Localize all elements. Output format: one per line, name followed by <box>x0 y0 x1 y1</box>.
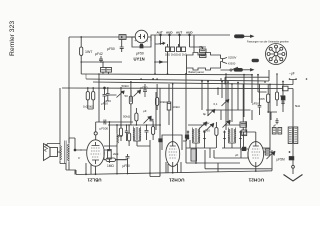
svg-text:~μF: ~μF <box>289 72 295 76</box>
osc pad C9 <box>145 128 149 135</box>
resistor R29 capsule <box>252 59 259 62</box>
socket diagram circle <box>266 44 287 65</box>
svg-text:μF42: μF42 <box>95 52 103 56</box>
svg-text:1kΩ 5kΩ: 1kΩ 5kΩ <box>83 105 93 109</box>
wire centre verticals <box>131 84 160 176</box>
wire heater bus <box>81 61 122 63</box>
trimmer CT1 <box>144 116 152 124</box>
resistor R5 <box>182 47 186 52</box>
wire below cap <box>292 160 294 165</box>
IF1 core <box>136 127 138 140</box>
tube UCH21 envelope <box>166 142 180 167</box>
svg-text:AUT: AUT <box>157 31 163 35</box>
svg-text:μF500: μF500 <box>100 127 109 131</box>
bus box segment <box>225 77 269 84</box>
svg-text:1W7: 1W7 <box>85 50 92 54</box>
divider R9 box <box>106 68 112 73</box>
capacitor C22 blob <box>289 157 294 160</box>
node taps <box>160 34 191 36</box>
plug arrow top <box>250 35 253 37</box>
wire osc row <box>108 125 160 146</box>
resistor R24 <box>119 125 122 141</box>
transformer T1 secondary <box>67 143 69 162</box>
resistor R3 <box>171 47 175 52</box>
svg-text:5kΩ: 5kΩ <box>295 104 300 108</box>
tube UCH21 second anode <box>253 142 259 166</box>
IF2 cap right <box>203 131 205 141</box>
capacitor C23 <box>281 96 285 100</box>
model name text <box>9 21 16 56</box>
svg-text:2: 2 <box>147 39 149 43</box>
wire UCH21 second pins <box>240 121 270 171</box>
trimmer CT3 <box>206 123 214 131</box>
resistor R7 capsule <box>234 68 250 71</box>
svg-text:μF: μF <box>143 109 147 113</box>
svg-text:Batterij aansl.: Batterij aansl. <box>189 70 205 74</box>
svg-text:μF50: μF50 <box>136 52 144 56</box>
capacitor C10 <box>150 117 154 121</box>
resistor R6 capsule mains <box>235 35 251 38</box>
socket spokes <box>270 48 282 60</box>
tube UCH21 second grids <box>252 149 261 158</box>
bus agc y82-84 <box>93 80 297 85</box>
capacitor C20 <box>159 139 162 142</box>
transformer T1 core <box>65 141 67 164</box>
svg-text:UBL21: UBL21 <box>87 178 101 183</box>
wire AF coupling <box>104 150 128 174</box>
IF2 coil a <box>193 128 195 144</box>
svg-text:10kΩ: 10kΩ <box>173 105 181 109</box>
speaker LS body <box>50 148 58 157</box>
resistor R15 <box>135 108 138 125</box>
resistor R16 <box>129 82 132 110</box>
resistor R18 <box>167 84 171 125</box>
capacitor C4 box <box>200 49 207 52</box>
svg-text:6μ: 6μ <box>203 112 207 116</box>
wire antenna column <box>262 85 293 157</box>
svg-text:Remler 323: Remler 323 <box>9 21 16 56</box>
resistor R4 <box>177 44 181 52</box>
resistor R23 <box>108 122 112 163</box>
antenna coil L1a <box>288 127 292 144</box>
svg-text:UCH21: UCH21 <box>169 178 185 183</box>
wire shield links <box>183 138 187 141</box>
svg-text:μF50: μF50 <box>203 129 210 133</box>
tube UY1N envelope <box>135 30 148 43</box>
resistor R19 <box>156 92 159 110</box>
capacitor C16 <box>106 91 110 98</box>
capacitor C7 <box>104 120 106 125</box>
svg-text:Fassungen von der Unterseite g: Fassungen von der Unterseite gesehen <box>247 41 290 44</box>
capacitor C21 <box>185 135 188 138</box>
wire top supply <box>69 36 135 38</box>
osc resistor R14 <box>152 121 155 140</box>
wire choke <box>116 125 118 174</box>
tube UBL21 envelope <box>87 140 105 166</box>
antenna coil L1b <box>294 127 298 144</box>
svg-text:UCH21: UCH21 <box>248 178 264 183</box>
capacitor C2 <box>120 37 124 52</box>
plug arrow bottom <box>250 69 253 71</box>
svg-text:μF5M: μF5M <box>277 158 286 162</box>
tube UCH21 anode <box>170 142 176 166</box>
wire to earth <box>292 168 294 174</box>
divider R8 box <box>101 68 107 73</box>
capacitor C5 box <box>200 54 207 57</box>
switch wiper S1b <box>155 61 168 63</box>
switch S3 mains <box>221 67 241 71</box>
wire mid-left links <box>99 74 133 122</box>
svg-text:1kΩ 1kΩ: 1kΩ 1kΩ <box>165 53 176 57</box>
resistor R10 <box>86 88 89 109</box>
capacitor C6 <box>103 88 107 101</box>
svg-text:50kΩ: 50kΩ <box>122 84 130 88</box>
tube UBL21 anode <box>92 142 100 164</box>
resistor R1 1W7 <box>80 37 83 62</box>
capacitor C8 <box>126 154 130 161</box>
wire IF3 links <box>222 74 243 148</box>
svg-text:UY1N: UY1N <box>134 57 145 62</box>
svg-text:50kΩ: 50kΩ <box>123 115 131 119</box>
svg-text:μF: μF <box>273 124 276 128</box>
resistor R2 <box>166 44 170 52</box>
wire bottom right links <box>206 75 277 120</box>
wire speaker links <box>60 138 82 175</box>
trimmer CT4 <box>223 120 231 128</box>
node transformer tap <box>74 149 76 151</box>
wire v86 <box>85 74 87 79</box>
fuse box F1 <box>119 35 126 40</box>
capacitor C3 electrolytic <box>140 45 143 48</box>
IF1 coil b <box>139 127 141 142</box>
resistor R20 <box>215 122 218 140</box>
tube UBL21 grid lines <box>91 148 101 157</box>
capacitor C24 <box>276 118 279 124</box>
switch wiper S1 <box>155 42 165 44</box>
box on avc bus <box>283 86 289 91</box>
wire extra drops <box>202 75 267 122</box>
IF2 core <box>195 128 197 142</box>
svg-text:1kΩ 1kΩ: 1kΩ 1kΩ <box>176 53 187 57</box>
IF3 coil a <box>229 128 231 144</box>
node antenna circle <box>292 165 295 168</box>
svg-text:50kΩ: 50kΩ <box>160 100 168 104</box>
resistor R13 capsule horizontal <box>104 158 126 161</box>
resistor R26 capsule <box>267 84 270 112</box>
resistor R17 capsule <box>143 84 147 97</box>
trimmer CT5 <box>267 151 275 159</box>
wire left rail <box>68 37 70 143</box>
svg-text:C: C <box>78 156 81 160</box>
IF2 coil b <box>198 128 200 144</box>
trimmer CT6 <box>199 122 207 130</box>
tube UCH21 second envelope <box>248 142 264 167</box>
IF1 coil a <box>134 127 136 142</box>
bus B+ y74 <box>81 73 252 76</box>
switch S2 contacts <box>187 47 228 74</box>
wire UCH21 pins <box>150 84 181 177</box>
socket pins <box>267 45 285 63</box>
bus screen y79 <box>86 70 269 81</box>
wire if links low <box>186 140 241 172</box>
wire UBL21 top pin <box>96 122 99 140</box>
transformer T1 primary <box>60 145 62 162</box>
frame lines IF return <box>205 150 272 169</box>
svg-text:2kΩ: 2kΩ <box>113 152 119 156</box>
svg-text:K/500: K/500 <box>228 62 236 66</box>
trimmer CT7 <box>222 99 229 106</box>
resistor R27 <box>275 74 278 106</box>
resistor R11 <box>88 88 95 109</box>
resistor R12 <box>128 125 131 146</box>
volume pot P1 <box>117 88 125 125</box>
wire rectifier loop <box>132 37 151 47</box>
bottom bus <box>66 150 272 175</box>
tube UY1N electrodes <box>139 34 145 39</box>
svg-text:μF50: μF50 <box>141 86 148 90</box>
capacitor C15 <box>281 99 284 106</box>
wire left low rail <box>59 88 61 145</box>
svg-text:μF50: μF50 <box>252 102 259 106</box>
coil L2 choke <box>117 134 119 145</box>
svg-text:50: 50 <box>125 94 129 98</box>
IF3 core <box>231 128 233 142</box>
earth symbol <box>284 175 303 182</box>
oscillator coil L3 <box>191 149 197 161</box>
wire net <box>126 125 128 141</box>
trimmer CT8 <box>208 109 215 116</box>
box R21 <box>240 122 247 127</box>
speaker LS cone <box>44 144 51 161</box>
wire mains top <box>151 35 230 41</box>
IF3 coil b <box>234 128 236 144</box>
wire to rectifier <box>126 36 135 38</box>
IF2 cap left <box>187 131 189 141</box>
wire divider taps <box>103 62 109 74</box>
svg-text:μF50: μF50 <box>123 164 131 168</box>
svg-text:1MΩ: 1MΩ <box>107 164 114 168</box>
wire pot link <box>108 88 131 102</box>
svg-text:μF: μF <box>235 153 239 157</box>
wire v81 <box>80 62 82 74</box>
socket center <box>274 52 278 56</box>
tube UCH21 grids <box>169 149 178 158</box>
capacitor C1 <box>99 56 103 62</box>
bus avc y88 <box>62 87 293 90</box>
capacitor C12 <box>125 129 128 137</box>
ballast block outline <box>187 53 223 71</box>
wire UBL21 side links <box>80 146 117 174</box>
wire right mid drops <box>232 82 283 123</box>
wire IF2 links <box>186 74 216 163</box>
svg-text:S250V: S250V <box>228 56 237 60</box>
wire tap drops <box>155 35 194 74</box>
IF3 cap right <box>239 131 241 141</box>
speaker frame <box>47 144 60 153</box>
IF3 cap left <box>223 131 225 141</box>
svg-text:μF50: μF50 <box>107 47 115 51</box>
trimmer CT2 <box>134 90 141 97</box>
shield box mixer <box>162 135 182 150</box>
svg-text:0,1: 0,1 <box>214 102 218 106</box>
